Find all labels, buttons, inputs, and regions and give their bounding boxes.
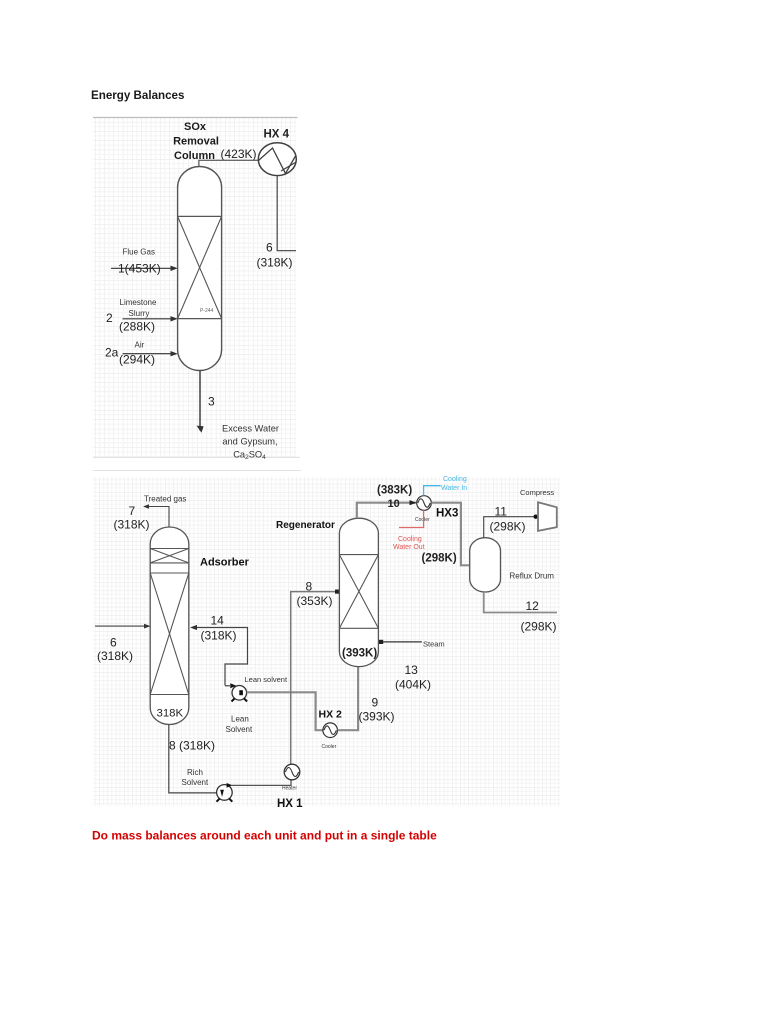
svg-text:and Gypsum,: and Gypsum,	[222, 437, 277, 447]
SOx removal column title	[173, 121, 219, 162]
svg-text:3: 3	[208, 395, 215, 409]
svg-text:(383K): (383K)	[377, 485, 412, 497]
svg-text:1(453K): 1(453K)	[118, 261, 161, 275]
svg-text:Reflux Drum: Reflux Drum	[510, 572, 555, 581]
top nozzle wire to HX4	[199, 160, 258, 167]
svg-text:11: 11	[495, 505, 508, 519]
reflux drum	[470, 538, 501, 592]
stream 2 wire	[123, 318, 176, 320]
stream 11 wire (drum to compressor)	[484, 517, 535, 538]
svg-text:6: 6	[110, 636, 117, 650]
adsorber small X	[150, 549, 189, 563]
svg-text:Solvent: Solvent	[226, 725, 253, 734]
stream 6 wire (into adsorber)	[95, 625, 148, 627]
grid background (top diagram)	[93, 118, 301, 471]
svg-text:2a: 2a	[105, 346, 119, 360]
lean solvent pump	[230, 683, 247, 701]
svg-text:Heater: Heater	[282, 786, 297, 792]
pump outlet wire to HX1	[232, 780, 292, 785]
stream 7 wire	[146, 507, 169, 527]
svg-text:Compress: Compress	[520, 488, 554, 497]
svg-text:2: 2	[106, 311, 113, 325]
svg-text:13: 13	[405, 663, 419, 677]
svg-text:8: 8	[306, 580, 313, 594]
svg-text:Steam: Steam	[423, 640, 445, 649]
rich solvent wire (adsorber bottoms to pump)	[169, 725, 216, 793]
top border line	[93, 117, 298, 119]
packing X	[178, 216, 222, 318]
svg-text:(423K): (423K)	[221, 147, 257, 161]
svg-text:SOx: SOx	[184, 121, 207, 133]
svg-text:(294K): (294K)	[119, 353, 155, 367]
stream to reflux drum wire	[431, 503, 469, 566]
svg-text:(298K): (298K)	[490, 520, 526, 534]
grid background (bottom diagram)	[93, 477, 560, 806]
stream 10 wire (regenerator top to HX3)	[357, 503, 416, 519]
svg-text:HX 1: HX 1	[277, 798, 303, 810]
regenerator vessel	[339, 518, 378, 666]
stream 1 wire (strikethrough arrow)	[111, 267, 176, 269]
svg-text:10: 10	[388, 498, 400, 510]
svg-text:Cooling: Cooling	[443, 476, 467, 483]
svg-text:Limestone: Limestone	[120, 298, 157, 307]
svg-text:Adsorber: Adsorber	[200, 557, 250, 569]
svg-text:Slurry: Slurry	[129, 309, 150, 318]
svg-text:(404K): (404K)	[395, 678, 431, 692]
heat exchanger HX2	[323, 723, 338, 738]
svg-text:(298K): (298K)	[521, 620, 557, 634]
svg-text:Excess Water: Excess Water	[222, 424, 279, 434]
stream 2a wire	[123, 353, 176, 355]
svg-text:Solvent: Solvent	[182, 778, 209, 787]
steam wire	[380, 641, 422, 643]
heat exchanger HX1	[284, 764, 300, 780]
stream 3 wire (bottom outlet)	[199, 371, 201, 431]
svg-text:6: 6	[266, 241, 273, 255]
svg-text:(353K): (353K)	[297, 594, 333, 608]
adsorber big X	[150, 573, 189, 695]
svg-text:(298K): (298K)	[422, 553, 457, 565]
svg-text:Treated gas: Treated gas	[144, 495, 186, 504]
lean solvent wire pump to HX2	[247, 692, 323, 730]
rich solvent pump	[217, 783, 233, 802]
stream 9 wire (regenerator bottoms to HX2)	[338, 667, 359, 730]
product label	[222, 424, 279, 462]
svg-text:(318K): (318K)	[97, 649, 133, 663]
svg-text:Rich: Rich	[187, 768, 203, 777]
svg-text:Air: Air	[135, 341, 145, 350]
svg-text:14: 14	[211, 614, 225, 628]
SOx removal column vessel	[178, 167, 222, 371]
bottom border of top grid	[93, 456, 300, 458]
packing bottom line	[178, 318, 222, 320]
cooling water in wire (cyan)	[424, 486, 441, 496]
svg-text:Energy Balances: Energy Balances	[91, 89, 184, 102]
faint separator under top diagram	[93, 470, 301, 472]
stream 14 wire	[192, 628, 248, 686]
cooling water out wire (red)	[399, 510, 424, 527]
svg-text:(318K): (318K)	[201, 629, 237, 643]
heat exchanger HX4	[258, 143, 296, 176]
svg-text:Lean: Lean	[231, 715, 249, 724]
stream 6 wire from HX4	[277, 176, 296, 250]
svg-text:Do mass balances around each u: Do mass balances around each unit and pu…	[92, 829, 437, 843]
svg-text:318K: 318K	[157, 708, 184, 720]
svg-text:Cooler: Cooler	[322, 744, 337, 750]
regenerator packing lines	[339, 555, 378, 629]
svg-text:(288K): (288K)	[119, 320, 155, 334]
svg-text:9: 9	[372, 696, 379, 710]
svg-text:Removal: Removal	[173, 136, 219, 148]
svg-text:Lean solvent: Lean solvent	[245, 675, 288, 684]
adsorber band lines	[150, 549, 189, 695]
svg-text:Water In: Water In	[441, 485, 467, 492]
svg-text:(393K): (393K)	[342, 648, 377, 660]
svg-text:HX 4: HX 4	[264, 129, 290, 141]
svg-text:12: 12	[526, 599, 540, 613]
packing top line	[178, 215, 222, 217]
svg-text:Flue Gas: Flue Gas	[123, 248, 155, 257]
svg-text:Regenerator: Regenerator	[276, 520, 335, 531]
svg-text:8 (318K): 8 (318K)	[169, 739, 215, 753]
svg-text:Cooling: Cooling	[398, 536, 422, 543]
svg-text:(318K): (318K)	[257, 256, 293, 270]
stream 12 wire (drum bottoms)	[484, 592, 557, 613]
adsorber vessel	[150, 527, 189, 725]
svg-text:(393K): (393K)	[359, 710, 395, 724]
svg-text:(318K): (318K)	[114, 518, 150, 532]
svg-text:Ca2SO4: Ca2SO4	[233, 450, 266, 462]
svg-text:Cooler: Cooler	[415, 517, 430, 523]
compressor	[538, 502, 557, 531]
svg-text:P-244: P-244	[200, 308, 214, 314]
stream 8 wire (HX1 to regenerator)	[291, 592, 338, 765]
svg-text:Water Out: Water Out	[393, 544, 425, 551]
svg-text:HX3: HX3	[436, 508, 458, 520]
svg-text:HX 2: HX 2	[319, 709, 343, 721]
heat exchanger HX3	[417, 496, 432, 511]
svg-text:7: 7	[129, 504, 136, 518]
